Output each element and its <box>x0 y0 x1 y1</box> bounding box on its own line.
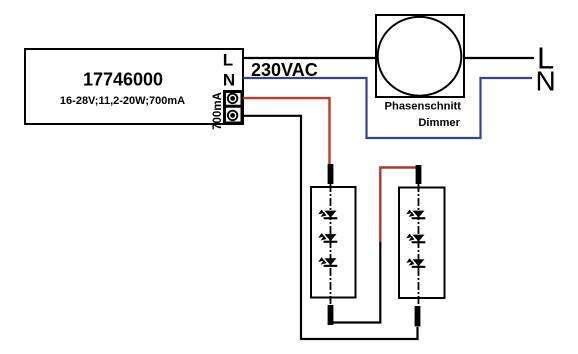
wire - (black) LED module D2 to driver <box>243 116 418 339</box>
LED module D1 center line <box>330 184 332 305</box>
svg-text:N: N <box>223 70 235 89</box>
svg-text:L: L <box>223 51 233 70</box>
svg-text:Phasenschnitt: Phasenschnitt <box>385 101 462 113</box>
output terminal block <box>223 92 243 124</box>
wire + (red) driver to LED module D1 <box>243 98 330 164</box>
LED D1a <box>318 210 337 220</box>
LED D1c <box>318 257 337 267</box>
LED module D1 box <box>311 187 356 298</box>
LED D2b <box>406 234 425 244</box>
screw terminal + <box>227 93 238 104</box>
LED module D2 box <box>399 188 445 299</box>
svg-text:16-28V;11,2-20W;700mA: 16-28V;11,2-20W;700mA <box>60 95 185 107</box>
LED module D1 top pin <box>328 164 334 184</box>
svg-text:17746000: 17746000 <box>83 69 163 89</box>
LED module D2 top pin <box>416 165 422 184</box>
LED module D2 bottom pin <box>415 306 421 327</box>
LED D2a <box>406 210 425 220</box>
LED D2c <box>406 258 425 268</box>
dimmer circle <box>378 17 462 96</box>
wire L (black) driver to dimmer <box>243 57 378 59</box>
screw terminal - <box>227 110 238 121</box>
series wire (black) D1 cathode to corner <box>331 242 381 323</box>
wire N (blue) driver to terminal N <box>243 78 532 138</box>
LED driver U1 box <box>25 49 243 124</box>
series wire (red) corner to D2 anode <box>380 168 418 243</box>
LED D1b <box>318 233 337 243</box>
svg-text:Dimmer: Dimmer <box>418 117 460 129</box>
wire L (black) dimmer to terminal L <box>461 57 534 59</box>
LED module D2 center line <box>418 184 420 306</box>
dimmer box <box>376 15 464 97</box>
svg-text:N: N <box>536 65 556 96</box>
svg-text:700mA: 700mA <box>212 92 224 130</box>
LED module D1 bottom pin <box>328 305 334 325</box>
